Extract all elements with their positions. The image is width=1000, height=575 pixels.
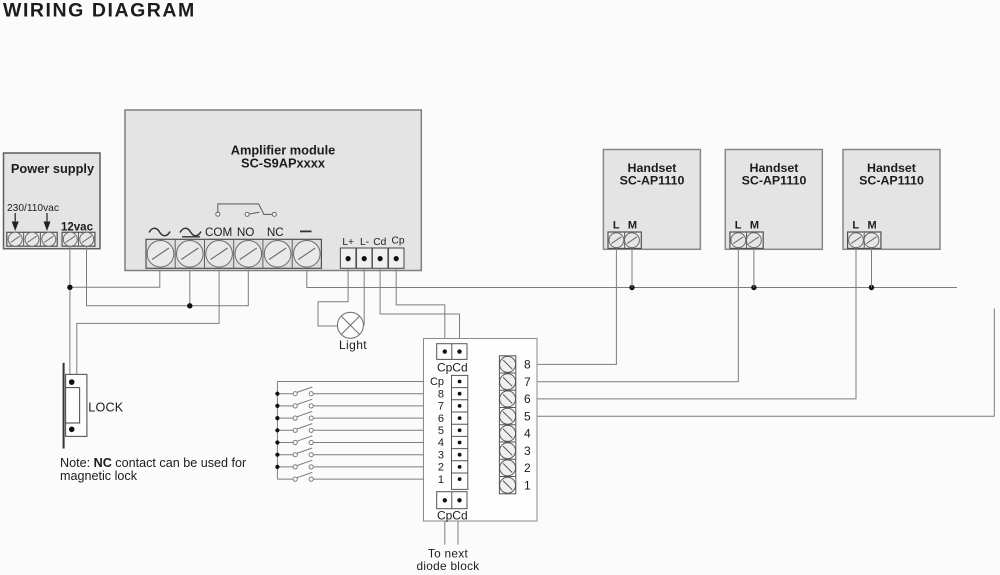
svg-text:7: 7 [524,375,531,389]
svg-text:2: 2 [524,461,531,475]
amplifier module U1 box [125,110,421,271]
switch SW7 [275,399,423,408]
AC label ~ (terminal 1) [149,228,170,235]
switch SW5 [275,424,423,433]
svg-text:L-: L- [360,237,369,248]
junction AC2/NO line [187,303,192,308]
switch SW1 [277,472,423,481]
svg-text:8: 8 [438,388,444,400]
handset 2 box [725,150,822,250]
arrow to terminal 3 [44,213,51,231]
lock strike plate [63,363,65,449]
svg-text:M: M [868,219,877,231]
svg-text:COM: COM [205,226,232,239]
svg-text:L: L [852,219,859,231]
switch SW2 [275,460,423,469]
wire amp AC2 down [189,271,191,306]
AC label ~ with underline (terminal 2) [180,228,201,236]
terminal Cp [389,248,405,268]
output screws 8..1 [500,356,516,493]
wire handset3 M down [871,248,873,287]
junction handset1 M [629,285,634,290]
svg-text:2: 2 [438,462,444,474]
wire Cp row [277,381,423,383]
note text [60,456,246,483]
svg-text:Cp: Cp [391,236,404,247]
svg-text:1: 1 [438,474,444,486]
svg-text:Light: Light [339,338,367,352]
handset 3 terminal block [848,232,881,248]
svg-text:LOCK: LOCK [88,401,123,415]
switch bus vertical [276,382,278,480]
handset 3 box [843,150,940,250]
PS mains terminal strip [7,232,57,246]
minus label [300,230,312,232]
svg-text:7: 7 [438,401,444,413]
svg-text:SC-AP1110: SC-AP1110 [859,173,924,187]
svg-text:Cd: Cd [373,237,386,248]
svg-text:L: L [735,219,742,231]
svg-text:CpCd: CpCd [437,509,468,523]
diode block top CpCd terminals [437,344,467,360]
junction PS-left/AC1 [67,285,72,290]
svg-text:8: 8 [524,358,531,372]
wire PS-left branch to amp AC1 [70,271,160,288]
output screw column strip [499,356,515,494]
svg-text:NC: NC [267,226,284,239]
wire diode terminal 5 to next handset [537,309,994,417]
handset 3 labels L M [852,219,876,231]
wire amp COM to lock [77,271,219,375]
lamp L1 [337,312,363,338]
handset 1 box [603,150,700,250]
diode block D1 box [424,339,538,522]
terminal L+ [340,248,356,268]
svg-text:Power supply: Power supply [11,161,95,176]
svg-text:M: M [750,219,759,231]
svg-text:6: 6 [438,413,444,425]
wire handset1 L to diode terminal 8 [537,248,616,364]
PS 12vac terminal strip [62,232,95,246]
wire bottom Cp down [444,521,446,545]
output labels 8..1 [524,358,531,493]
switch input column strip [452,375,468,489]
diode block bottom CpCd terminals [437,492,467,509]
svg-text:4: 4 [438,437,444,449]
svg-text:M: M [628,219,637,231]
svg-text:1: 1 [524,479,531,493]
wire handset1 M down [631,248,633,287]
wire handset2 M down [753,248,755,287]
terminal L- [357,248,373,268]
wire PS 12vac-right to amp NO [87,246,249,306]
svg-text:3: 3 [524,444,531,458]
svg-text:12vac: 12vac [61,222,94,234]
handset 2 terminal block [730,232,763,248]
wire Cd to diode block [380,268,459,343]
svg-text:230/110vac: 230/110vac [7,203,59,214]
svg-text:SC-S9APxxxx: SC-S9APxxxx [241,156,326,171]
switch SW8 [275,387,423,396]
label to next diode block [417,547,480,573]
relay contact symbol [216,204,276,217]
handset 2 labels L M [735,219,759,231]
wire handset3 L to diode terminal 6 [537,248,856,399]
svg-text:magnetic lock: magnetic lock [60,469,138,483]
svg-text:WIRING DIAGRAM: WIRING DIAGRAM [3,0,196,22]
arrow to terminal 1 [12,213,19,231]
power supply PS1 box [4,153,101,249]
switch SW3 [275,448,423,457]
switch SW4 [275,436,423,445]
svg-text:Note: NC contact can be used f: Note: NC contact can be used for [60,456,246,470]
wire PS 12vac-left down to lock [69,246,71,374]
svg-text:CpCd: CpCd [437,361,468,375]
wire handset2 L to diode terminal 7 [537,248,738,381]
wire Cp to diode block [396,268,445,343]
wire amp minus bus to handsets M [307,271,957,288]
junction handset2 M [751,285,756,290]
svg-text:diode block: diode block [417,559,480,573]
svg-text:Cp: Cp [430,376,444,388]
svg-text:4: 4 [524,427,531,441]
svg-text:5: 5 [438,425,444,437]
svg-text:3: 3 [438,449,444,461]
lock body [66,374,87,436]
svg-text:NO: NO [237,226,255,239]
svg-text:6: 6 [524,392,531,406]
svg-text:SC-AP1110: SC-AP1110 [742,173,807,187]
amplifier main terminal strip [146,239,321,268]
wire bottom Cd down [457,521,459,545]
svg-text:L: L [613,219,620,231]
junction handset3 M [869,285,874,290]
wire L+ to lamp [318,268,348,326]
svg-text:5: 5 [524,410,531,424]
svg-text:SC-AP1110: SC-AP1110 [620,173,685,187]
terminal Cd [372,248,388,268]
svg-text:L+: L+ [342,237,354,248]
switch column cell dividers and dots [452,380,468,481]
switch SW6 [275,411,423,420]
handset 1 labels L M [613,219,637,231]
handset 1 terminal block [608,232,641,248]
wire L- to lamp [363,268,365,325]
